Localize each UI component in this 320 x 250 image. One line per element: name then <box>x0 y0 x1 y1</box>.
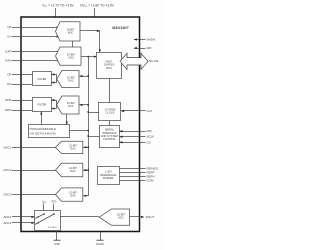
svg-text:D0–D9: D0–D9 <box>149 59 159 63</box>
svg-text:SHDN: SHDN <box>147 38 156 42</box>
svg-text:DAC2: DAC2 <box>3 168 11 172</box>
svg-text:CONTROL: CONTROL <box>103 137 116 141</box>
svg-text:BUS: BUS <box>107 66 113 70</box>
svg-text:DN: DN <box>7 82 11 86</box>
svg-text:FILTER: FILTER <box>38 77 47 81</box>
svg-text:CLOCK: CLOCK <box>106 111 115 115</box>
svg-text:BUFFER: BUFFER <box>103 176 114 180</box>
svg-text:MAX1407: MAX1407 <box>112 26 129 30</box>
svg-text:WR: WR <box>147 46 153 50</box>
svg-text:ADC2: ADC2 <box>3 221 11 225</box>
svg-text:ADC: ADC <box>118 216 124 220</box>
svg-text:DAC: DAC <box>70 146 76 150</box>
svg-text:DAC: DAC <box>70 169 76 173</box>
svg-text:DAC: DAC <box>68 104 74 108</box>
svg-text:UN: UN <box>7 35 11 39</box>
svg-text:DAC: DAC <box>70 194 76 198</box>
svg-text:UP: UP <box>7 25 11 29</box>
svg-text:GAP: GAP <box>5 50 11 54</box>
svg-text:ADC: ADC <box>68 31 74 35</box>
svg-text:VDD = +2.7V TO +3.6V: VDD = +2.7V TO +3.6V <box>42 4 74 9</box>
svg-text:GDP: GDP <box>5 98 12 102</box>
svg-text:COM: COM <box>147 179 155 183</box>
svg-text:GDN: GDN <box>5 108 12 112</box>
svg-text:DGND: DGND <box>96 242 104 246</box>
svg-text:DAC3: DAC3 <box>3 193 11 197</box>
svg-text:4:1 MUX: 4:1 MUX <box>48 227 57 229</box>
svg-text:PROGRAMMABLE: PROGRAMMABLE <box>30 127 57 131</box>
svg-text:ADC1: ADC1 <box>3 215 11 219</box>
svg-text:GAN: GAN <box>5 59 12 63</box>
svg-text:RTD: RTD <box>52 202 57 204</box>
svg-text:DOUT: DOUT <box>146 215 155 219</box>
svg-text:GND: GND <box>54 242 60 246</box>
svg-text:DAC1: DAC1 <box>3 145 11 149</box>
svg-text:OH DET/GAIN/CM: OH DET/GAIN/CM <box>30 131 57 135</box>
svg-text:DIN: DIN <box>147 129 152 133</box>
svg-text:SCLK: SCLK <box>147 135 155 139</box>
svg-text:DAC: DAC <box>68 79 74 83</box>
svg-text:FILTER: FILTER <box>38 103 47 107</box>
svg-text:ADC: ADC <box>68 56 74 60</box>
svg-text:CS: CS <box>147 140 151 144</box>
svg-text:CLK: CLK <box>147 109 153 113</box>
svg-text:DP: DP <box>7 73 11 77</box>
